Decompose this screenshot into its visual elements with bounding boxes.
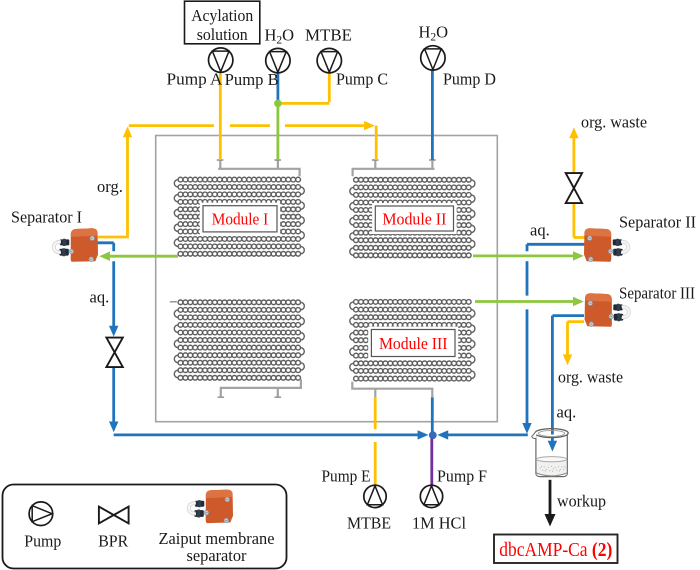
module II label box bbox=[372, 203, 457, 234]
svg-text:Pump: Pump bbox=[24, 532, 61, 551]
wire: MTBE pump E up into module III bbox=[374, 397, 377, 485]
wire: acylation feed pump A to module I bbox=[219, 72, 222, 160]
junction node aq+HCl bbox=[429, 431, 437, 439]
module III inlet manifold bbox=[352, 382, 432, 398]
collection beaker bbox=[532, 429, 569, 477]
separator II (Zaiput) bbox=[584, 228, 628, 261]
svg-text:Module III: Module III bbox=[379, 334, 448, 353]
BPR 2 (right, before org waste) bbox=[566, 173, 582, 203]
svg-text:Acylation: Acylation bbox=[191, 6, 253, 25]
label Separator I bbox=[11, 207, 82, 226]
svg-text:workup: workup bbox=[557, 492, 606, 511]
label org. bbox=[97, 177, 123, 196]
svg-text:aq.: aq. bbox=[530, 221, 550, 240]
label H2O (pump D) bbox=[419, 22, 449, 43]
label aq. (sep II) bbox=[530, 221, 550, 240]
separator III (Zaiput) bbox=[585, 293, 629, 327]
module III label box bbox=[368, 327, 458, 360]
wire: mixed B+C feed to module I bbox=[276, 103, 279, 160]
wire: module II outlet to separator II bbox=[473, 251, 584, 260]
reactor enclosure box bbox=[156, 136, 498, 422]
module I inlet manifold bbox=[217, 160, 300, 177]
label 1M HCl (pump F) bbox=[412, 513, 466, 532]
svg-text:Module I: Module I bbox=[212, 210, 269, 229]
pump D bbox=[421, 46, 445, 70]
module II coil bbox=[350, 177, 475, 257]
module I label box bbox=[200, 203, 280, 235]
label MTBE (pump E) bbox=[347, 513, 391, 532]
label aq. (left) bbox=[90, 287, 110, 306]
svg-text:Pump D: Pump D bbox=[443, 69, 496, 88]
BPR 1 (left, on aqueous line) bbox=[106, 338, 122, 368]
module IV coil (unlabeled) bbox=[174, 300, 304, 380]
svg-text:separator: separator bbox=[187, 546, 247, 565]
legend Zaiput separator bbox=[189, 490, 233, 524]
product box dbcAMP-Ca (2) bbox=[494, 535, 618, 564]
label workup bbox=[557, 492, 606, 511]
wire: separator I organic recycle bbox=[98, 121, 376, 238]
legend box bbox=[3, 485, 287, 569]
label Separator III bbox=[619, 283, 695, 302]
label aq. (beaker) bbox=[557, 403, 577, 422]
legend label Zaiput membrane bbox=[159, 529, 275, 548]
pump A bbox=[209, 48, 233, 72]
wire: module III outlet to separator III bbox=[475, 297, 584, 306]
svg-text:MTBE: MTBE bbox=[305, 25, 352, 44]
pump B bbox=[266, 48, 290, 72]
module IV outlet manifold bbox=[170, 302, 301, 397]
wire: module I outlet to separator I bbox=[99, 252, 178, 261]
wire: separator II aqueous down to junction bbox=[437, 244, 584, 439]
svg-text:Pump A: Pump A bbox=[167, 69, 223, 88]
svg-text:aq.: aq. bbox=[557, 403, 577, 422]
svg-text:Pump B: Pump B bbox=[225, 70, 279, 89]
legend label Pump bbox=[24, 532, 61, 551]
label Pump C bbox=[336, 69, 388, 88]
module III coil bbox=[350, 300, 475, 381]
label Pump B bbox=[225, 70, 279, 89]
svg-text:Separator III: Separator III bbox=[619, 283, 695, 302]
legend label separator bbox=[187, 546, 247, 565]
svg-text:dbcAMP-Ca (2): dbcAMP-Ca (2) bbox=[499, 539, 612, 561]
wire: separator III organic to waste bbox=[563, 322, 584, 366]
wire: separator II organic to BPR and org waste bbox=[569, 127, 584, 237]
wire: separator III aqueous to beaker bbox=[548, 316, 584, 452]
svg-text:Pump C: Pump C bbox=[336, 69, 388, 88]
label org. waste (top right) bbox=[581, 113, 647, 132]
svg-text:1M HCl: 1M HCl bbox=[412, 513, 466, 532]
wire: H2O pump D to module II bbox=[431, 70, 434, 160]
label org. waste (bottom) bbox=[558, 368, 623, 387]
svg-text:org.: org. bbox=[97, 177, 123, 196]
svg-text:BPR: BPR bbox=[98, 532, 128, 551]
label MTBE (pump C) bbox=[305, 25, 352, 44]
legend pump symbol bbox=[29, 502, 53, 526]
label Pump D bbox=[443, 69, 496, 88]
svg-text:Pump E: Pump E bbox=[322, 467, 371, 486]
pump F bbox=[420, 485, 442, 507]
wire: aq arrow into beaker (over beaker) bbox=[548, 437, 557, 452]
wire: separator I aqueous to junction bbox=[97, 243, 428, 440]
svg-text:org. waste: org. waste bbox=[581, 113, 647, 132]
wire: H2O pump B down bbox=[276, 73, 279, 102]
module II inlet manifold bbox=[353, 160, 436, 177]
wire: MTBE pump C to junction bbox=[280, 73, 330, 103]
svg-text:Separator II: Separator II bbox=[619, 212, 696, 231]
svg-text:MTBE: MTBE bbox=[347, 513, 391, 532]
wire: combined aqueous up into module III bbox=[431, 397, 434, 432]
svg-text:Module II: Module II bbox=[382, 209, 446, 228]
svg-text:Pump F: Pump F bbox=[437, 467, 487, 486]
workup arrow bbox=[545, 480, 556, 527]
legend BPR symbol bbox=[99, 507, 129, 524]
wire: 1M HCl pump F up bbox=[430, 439, 433, 486]
svg-text:solution: solution bbox=[197, 25, 248, 44]
acylation solution box bbox=[185, 1, 260, 44]
label Separator II bbox=[619, 212, 696, 231]
label H2O (pump B) bbox=[265, 25, 295, 46]
svg-text:aq.: aq. bbox=[90, 287, 110, 306]
pump E bbox=[364, 485, 386, 507]
legend label BPR bbox=[98, 532, 128, 551]
separator I (Zaiput) bbox=[54, 228, 98, 261]
pump C bbox=[317, 48, 341, 72]
module I coil bbox=[174, 177, 304, 256]
label Pump A bbox=[167, 69, 223, 88]
svg-text:Separator I: Separator I bbox=[11, 207, 82, 226]
svg-text:org. waste: org. waste bbox=[558, 368, 623, 387]
label Pump F bbox=[437, 467, 487, 486]
junction node B+C bbox=[274, 100, 282, 108]
label Pump E bbox=[322, 467, 371, 486]
